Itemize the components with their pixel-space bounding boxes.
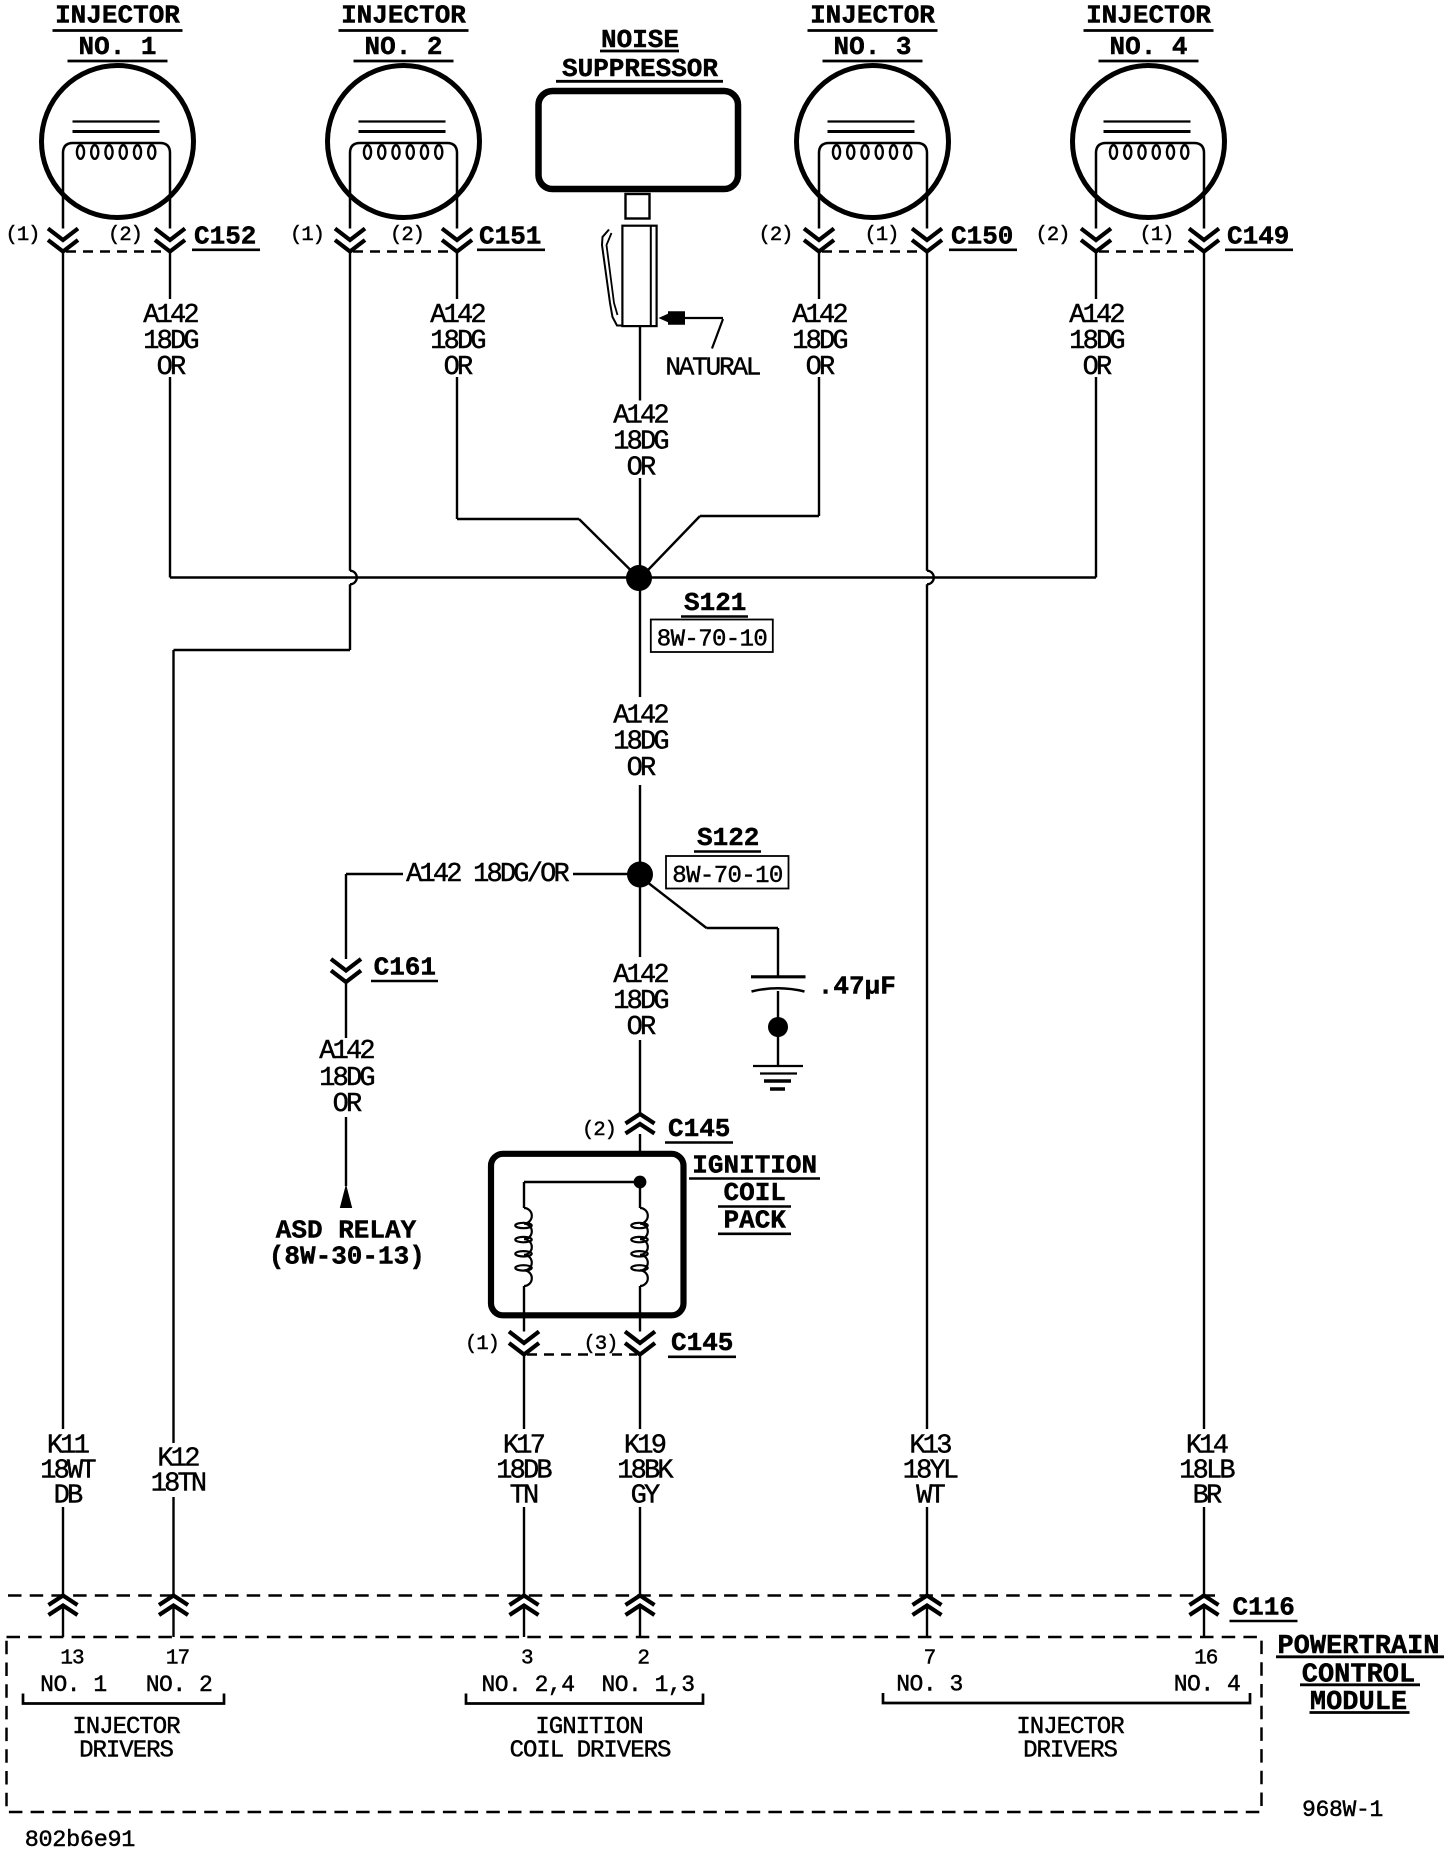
svg-text:NO. 2: NO. 2	[146, 1672, 213, 1698]
powertrain control module dashed box	[7, 1637, 1262, 1812]
wire label K14 18LB BR	[1179, 1432, 1235, 1512]
svg-text:(2): (2)	[759, 224, 793, 247]
label NO. 4	[1174, 1672, 1241, 1698]
connector C152	[6, 222, 260, 252]
svg-text:NO. 2,4: NO. 2,4	[481, 1672, 574, 1698]
svg-text:802b6e91: 802b6e91	[25, 1827, 135, 1854]
svg-text:INJECTOR: INJECTOR	[55, 1, 180, 31]
coil pack right winding	[631, 1188, 648, 1332]
noise suppressor label	[556, 25, 723, 84]
svg-text:18TN: 18TN	[151, 1470, 206, 1500]
svg-text:(1): (1)	[290, 224, 324, 247]
wire injector1 pin2 A142 (x=170)	[169, 252, 171, 578]
svg-text:17: 17	[166, 1648, 189, 1671]
svg-text:PACK: PACK	[723, 1205, 786, 1235]
splice S122	[627, 862, 653, 888]
arrow to ASD relay	[340, 1184, 352, 1208]
label NO. 1,3	[601, 1672, 694, 1698]
label NO. 3	[896, 1672, 963, 1698]
svg-text:16: 16	[1194, 1648, 1218, 1671]
svg-text:(3): (3)	[584, 1333, 618, 1356]
svg-text:OR: OR	[444, 353, 473, 383]
svg-text:(1): (1)	[465, 1333, 499, 1356]
bracket injector drivers left	[23, 1694, 224, 1704]
svg-text:COIL: COIL	[723, 1178, 785, 1208]
sheet code 802b6e91	[25, 1827, 135, 1854]
wire label A142 18DG OR (S121-S122)	[613, 702, 668, 785]
svg-text:C150: C150	[951, 222, 1013, 252]
svg-text:NO. 3: NO. 3	[833, 32, 911, 62]
connector C116 terminal (K13)	[913, 1596, 942, 1616]
svg-text:INJECTOR: INJECTOR	[341, 1, 466, 31]
svg-text:(2): (2)	[582, 1119, 616, 1142]
svg-text:13: 13	[60, 1648, 84, 1671]
wire noise suppressor lead (x=640 upper)	[639, 326, 641, 578]
svg-text:SUPPRESSOR: SUPPRESSOR	[562, 54, 718, 84]
svg-text:OR: OR	[806, 353, 835, 383]
connector C116 terminal (K12)	[159, 1596, 188, 1616]
wire injector3 pin2 A142 (x=819)	[818, 252, 820, 517]
svg-text:2: 2	[637, 1648, 649, 1671]
svg-text:NO. 1: NO. 1	[78, 32, 156, 62]
wire capacitor branch (x=778)	[777, 928, 779, 1066]
svg-text:C161: C161	[374, 953, 436, 983]
svg-text:NO. 4: NO. 4	[1174, 1672, 1241, 1698]
svg-text:8W-70-10: 8W-70-10	[672, 863, 782, 890]
svg-text:.47µF: .47µF	[818, 972, 896, 1002]
wire label K13 18YL WT	[903, 1432, 958, 1512]
label .47uF	[818, 972, 896, 1002]
label NO. 2,4	[481, 1672, 574, 1698]
svg-text:7: 7	[924, 1648, 936, 1671]
label POWERTRAIN CONTROL MODULE	[1276, 1632, 1444, 1718]
svg-text:(1): (1)	[1140, 224, 1174, 247]
pin 3	[521, 1648, 533, 1671]
bracket ignition coil drivers	[466, 1694, 703, 1704]
noise suppressor body	[539, 91, 739, 189]
wire label A142 18DG OR (injector3 pin2)	[792, 301, 847, 383]
svg-text:NO. 2: NO. 2	[364, 32, 442, 62]
wire label A142 18DG OR (C161 branch)	[319, 1037, 374, 1120]
noise suppressor connector body	[622, 226, 656, 326]
svg-text:GY: GY	[631, 1482, 660, 1512]
label NO. 2	[146, 1672, 213, 1698]
svg-text:C151: C151	[479, 222, 541, 252]
wire S121 bus (y=577.5)	[170, 576, 1096, 578]
connector C145 (pins 1,3)	[465, 1328, 736, 1358]
sheet code 968W-1	[1302, 1797, 1383, 1823]
splice S121	[626, 565, 652, 591]
svg-text:INJECTOR: INJECTOR	[1086, 1, 1211, 31]
svg-text:OR: OR	[333, 1090, 362, 1120]
connector C116 dashed line	[8, 1594, 1218, 1597]
pin 7	[924, 1648, 936, 1671]
injector no.1 (U symbol)	[42, 1, 194, 229]
svg-text:NO. 4: NO. 4	[1109, 32, 1187, 62]
svg-text:S122: S122	[697, 823, 759, 853]
wire K17 run (x=524)	[523, 1355, 525, 1638]
svg-text:(1): (1)	[6, 224, 40, 247]
noise suppressor stub	[626, 194, 650, 219]
wire injector3 pin2 lead-in to S121	[649, 516, 820, 570]
label INJECTOR DRIVERS (left)	[72, 1714, 180, 1765]
connector C151	[290, 222, 545, 252]
connector C116 terminal (K14)	[1190, 1596, 1219, 1616]
label S121	[681, 588, 748, 618]
label INJECTOR DRIVERS (right)	[1016, 1714, 1124, 1765]
pin 16	[1194, 1648, 1218, 1671]
wire C161 branch (x=346)	[345, 874, 347, 1186]
coil pack left winding	[515, 1182, 532, 1332]
svg-text:COIL DRIVERS: COIL DRIVERS	[510, 1738, 671, 1765]
wire injector2 pin1 upper (x=350) with hop over S121 bus	[350, 252, 357, 651]
pin 2	[637, 1648, 649, 1671]
svg-text:INJECTOR: INJECTOR	[810, 1, 935, 31]
injector no.4	[1073, 1, 1225, 229]
ignition coil pack body	[491, 1154, 684, 1316]
wire injector2 pin1 lower K12 run (x=173.5)	[172, 650, 174, 1637]
svg-text:OR: OR	[627, 754, 656, 784]
wire S122 right diagonal to capacitor	[649, 884, 778, 929]
label ASD RELAY	[269, 1215, 425, 1271]
arrow NATURAL callout	[659, 311, 724, 348]
bracket injector drivers right	[883, 1693, 1250, 1703]
connector C116 terminal (K11)	[49, 1596, 78, 1616]
svg-text:A142 18DG/OR: A142 18DG/OR	[406, 860, 569, 890]
coil pack inner wire to primary junction	[524, 1176, 646, 1189]
label IGNITION COIL DRIVERS	[510, 1714, 671, 1765]
svg-text:IGNITION: IGNITION	[692, 1150, 817, 1180]
wire S122 left branch (y=874)	[346, 873, 628, 875]
reference box 8W-70-10 (S122)	[666, 856, 789, 890]
svg-text:NATURAL: NATURAL	[665, 353, 759, 383]
wire injector1 pin1 K11 run (x=63)	[62, 252, 64, 1638]
svg-text:18DG: 18DG	[613, 728, 668, 758]
label NO. 1	[40, 1672, 107, 1698]
svg-text:BR: BR	[1193, 1482, 1222, 1512]
reference box 8W-70-10 (S121)	[651, 620, 773, 654]
svg-text:NO. 3: NO. 3	[896, 1672, 963, 1698]
svg-text:DRIVERS: DRIVERS	[1023, 1738, 1117, 1765]
wire label A142 18DG/OR (S122 left branch)	[406, 860, 569, 890]
wire injector4 pin2 A142 (x=1096)	[1095, 252, 1097, 578]
svg-text:DRIVERS: DRIVERS	[79, 1738, 173, 1765]
svg-text:8W-70-10: 8W-70-10	[657, 627, 767, 654]
ground symbol	[753, 1066, 803, 1089]
pin 17	[166, 1648, 189, 1671]
wire label A142 18DG OR (noise suppressor)	[613, 402, 668, 484]
label C116	[1230, 1593, 1298, 1623]
svg-text:TN: TN	[510, 1482, 538, 1512]
svg-text:NO. 1,3: NO. 1,3	[601, 1672, 694, 1698]
svg-text:NO. 1: NO. 1	[40, 1672, 107, 1698]
svg-text:C145: C145	[671, 1328, 733, 1358]
wire injector4 pin1 K14 run (x=1204)	[1203, 252, 1205, 1638]
wire jog injector2 pin1 (y=650)	[174, 649, 351, 651]
label IGNITION COIL PACK	[689, 1150, 820, 1235]
svg-text:WT: WT	[916, 1482, 945, 1512]
wire label A142 18DG OR (below S122)	[613, 961, 668, 1043]
wire label A142 18DG OR (injector2 pin2)	[430, 301, 485, 383]
svg-text:S121: S121	[684, 588, 746, 618]
svg-text:A142: A142	[319, 1037, 374, 1067]
wire injector2 pin2 lead-in to S121	[457, 519, 631, 571]
wire S122 to coil pack (x=640)	[639, 887, 641, 1114]
label S122	[694, 823, 761, 853]
wire label A142 18DG OR (injector1 pin2)	[143, 301, 198, 383]
svg-text:C149: C149	[1227, 222, 1289, 252]
svg-text:OR: OR	[627, 1013, 656, 1043]
wire K19 run (x=640)	[639, 1355, 641, 1638]
wire label A142 18DG OR (injector4 pin2)	[1069, 301, 1124, 383]
svg-text:(2): (2)	[1036, 224, 1070, 247]
connector C161	[331, 953, 438, 983]
svg-text:C116: C116	[1233, 1593, 1295, 1623]
wire injector3 pin1 K13 run (x=927) with hop over S121 bus	[927, 252, 934, 1638]
pin 13	[60, 1648, 84, 1671]
svg-text:C145: C145	[668, 1114, 730, 1144]
svg-text:OR: OR	[1083, 353, 1112, 383]
wire label K19 18BK GY	[617, 1432, 674, 1512]
noise suppressor clip	[602, 230, 622, 326]
connector C145 (pin 2)	[582, 1114, 733, 1144]
svg-text:(1): (1)	[865, 224, 899, 247]
svg-text:(2): (2)	[390, 224, 424, 247]
capacitor .47uF	[751, 977, 806, 992]
connector C116 terminal (K17)	[510, 1596, 539, 1616]
wire C145(2) to coil pack	[639, 1134, 641, 1151]
junction dot (capacitor ground)	[768, 1017, 788, 1037]
injector no.3	[797, 1, 949, 229]
svg-text:3: 3	[521, 1648, 533, 1671]
svg-text:OR: OR	[157, 353, 186, 383]
wire injector2 pin2 A142 (x=457)	[456, 252, 458, 520]
wire S121 to S122 (x=640)	[639, 590, 641, 862]
wire label K11 18WT DB	[40, 1432, 96, 1512]
wire label K17 18DB TN	[496, 1432, 552, 1512]
connector C149	[1036, 222, 1293, 252]
svg-text:C152: C152	[194, 222, 256, 252]
svg-text:(2): (2)	[108, 224, 142, 247]
svg-text:(8W-30-13): (8W-30-13)	[269, 1242, 425, 1272]
connector C116 terminal (K19)	[626, 1596, 655, 1616]
injector no.2	[328, 1, 480, 229]
label NATURAL	[665, 353, 759, 383]
svg-text:OR: OR	[627, 454, 656, 484]
svg-text:968W-1: 968W-1	[1302, 1797, 1383, 1823]
svg-text:DB: DB	[54, 1482, 83, 1512]
wire label K12 18TN	[151, 1445, 206, 1500]
connector C150	[759, 222, 1017, 252]
